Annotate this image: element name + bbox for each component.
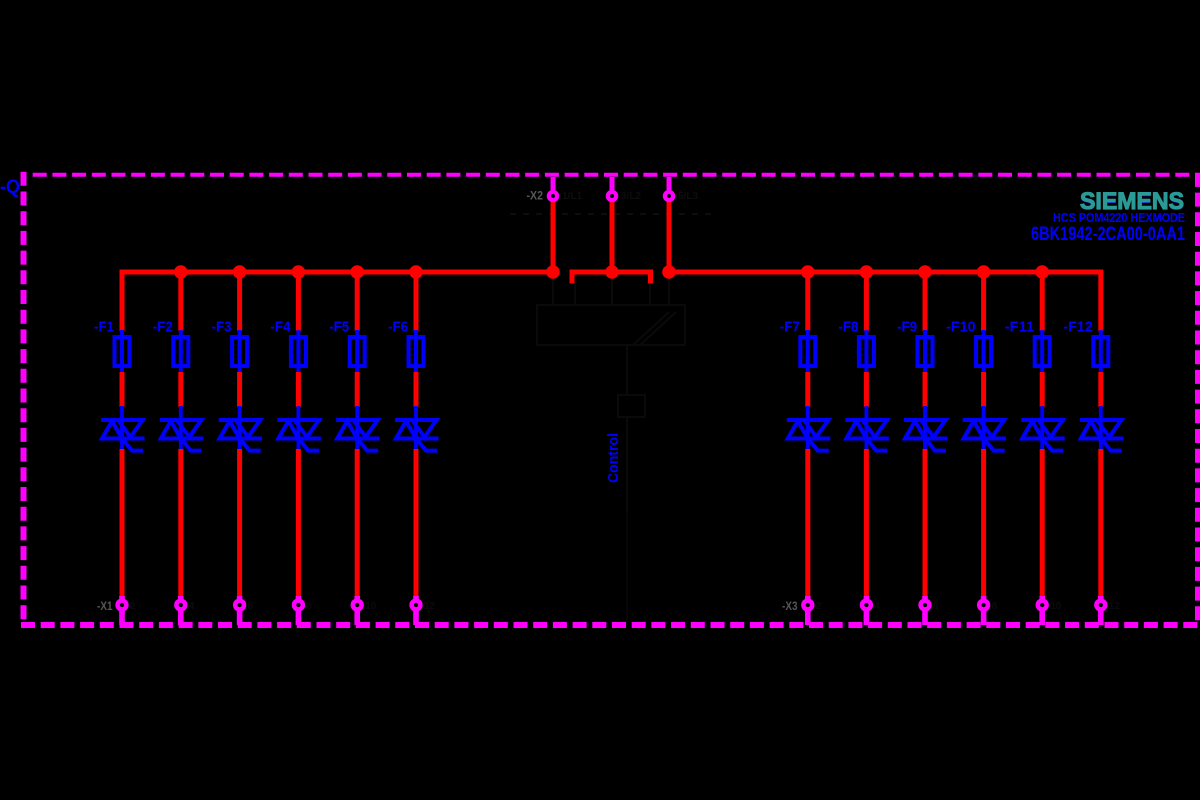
svg-text:6: 6: [933, 601, 939, 612]
svg-text:4: 4: [874, 601, 880, 612]
svg-text:-F4: -F4: [270, 319, 291, 336]
svg-text:10: 10: [365, 601, 377, 612]
svg-text:-F5: -F5: [329, 319, 349, 336]
svg-text:-F10: -F10: [946, 319, 976, 336]
svg-text:-F7: -F7: [780, 319, 800, 336]
svg-text:-F2: -F2: [153, 319, 173, 336]
svg-text:6BK1942-2CA00-0AA1: 6BK1942-2CA00-0AA1: [1031, 224, 1185, 245]
svg-text:-F1: -F1: [94, 319, 114, 336]
svg-text:10: 10: [1050, 601, 1062, 612]
svg-text:12: 12: [424, 601, 436, 612]
svg-text:HCS POM4220 HEXMODE: HCS POM4220 HEXMODE: [1053, 211, 1185, 225]
svg-text:3/L2: 3/L2: [621, 191, 641, 202]
svg-text:8: 8: [306, 601, 312, 612]
svg-text:Control: Control: [606, 433, 622, 483]
svg-text:-F9: -F9: [897, 319, 917, 336]
svg-text:-X1: -X1: [97, 599, 113, 613]
svg-text:2: 2: [130, 601, 136, 612]
svg-text:2: 2: [816, 601, 822, 612]
svg-text:-X2: -X2: [527, 189, 544, 203]
svg-text:4: 4: [189, 601, 195, 612]
svg-text:-F11: -F11: [1005, 319, 1034, 336]
svg-text:-F6: -F6: [388, 319, 408, 336]
svg-text:6: 6: [248, 601, 254, 612]
svg-text:-F3: -F3: [212, 319, 232, 336]
svg-text:-F8: -F8: [838, 319, 858, 336]
svg-text:-F12: -F12: [1063, 319, 1093, 336]
svg-text:8: 8: [992, 601, 998, 612]
svg-text:5/L3: 5/L3: [678, 191, 698, 202]
svg-text:1/L1: 1/L1: [562, 191, 582, 202]
svg-text:12: 12: [1109, 601, 1121, 612]
svg-text:-X3: -X3: [782, 599, 798, 613]
